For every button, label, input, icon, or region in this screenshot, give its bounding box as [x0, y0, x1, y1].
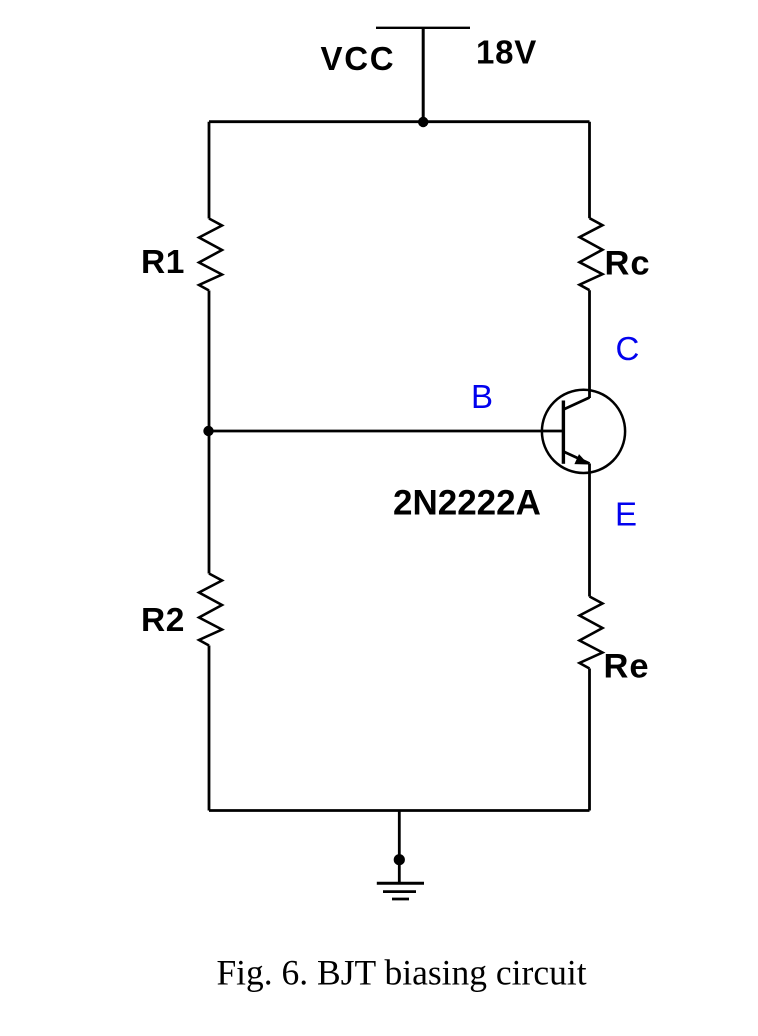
resistor Re [580, 597, 603, 669]
svg-text:R2: R2 [141, 602, 185, 639]
svg-text:E: E [615, 496, 637, 533]
svg-text:Re: Re [604, 648, 650, 686]
svg-text:2N2222A: 2N2222A [393, 484, 541, 523]
svg-text:Rc: Rc [605, 245, 651, 283]
resistor Rc [580, 218, 603, 290]
wire right upper [588, 122, 591, 219]
VCC power rail bar [376, 27, 470, 29]
transistor base bar [562, 401, 565, 464]
ground bar 3 [392, 898, 409, 901]
wire left lower [208, 646, 211, 811]
wire left upper [208, 122, 211, 219]
svg-text:B: B [471, 378, 493, 415]
svg-text:18V: 18V [476, 34, 537, 71]
transistor collector diagonal [563, 398, 589, 410]
svg-text:R1: R1 [141, 244, 185, 281]
wire top rail [209, 120, 590, 123]
ground [377, 883, 424, 899]
wire collector [588, 290, 591, 398]
ground junction dot [394, 854, 405, 865]
wire right lower [588, 669, 591, 811]
transistor Q1 2N2222A [542, 390, 625, 473]
wire emitter [588, 464, 591, 597]
transistor emitter arrow [574, 454, 588, 464]
wire VCC stem [422, 28, 425, 122]
svg-text:VCC: VCC [321, 40, 396, 77]
svg-text:Fig. 6. BJT biasing circuit: Fig. 6. BJT biasing circuit [216, 953, 586, 993]
transistor emitter diagonal [563, 452, 589, 464]
ground bar 1 [377, 882, 424, 885]
resistor R2 [199, 574, 222, 646]
wire base [209, 430, 564, 433]
node B junction dot [203, 426, 213, 436]
ground bar 2 [383, 890, 416, 893]
wire ground stem [398, 811, 401, 884]
resistor R1 [199, 219, 222, 291]
junction dot VCC node [418, 117, 428, 127]
svg-text:C: C [616, 330, 640, 367]
wire bottom rail [209, 809, 590, 812]
transistor circle [542, 390, 625, 473]
wire left middle [208, 291, 211, 574]
